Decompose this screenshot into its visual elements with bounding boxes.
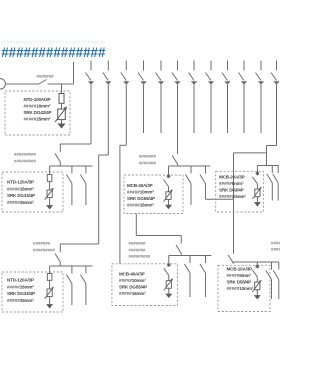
svg-text:MCB-20A/3P: MCB-20A/3P [219, 175, 245, 180]
wire C2 bus [257, 165, 278, 167]
wire B3 incoming switch [176, 236, 181, 256]
breaker QF5 feeder [156, 61, 165, 134]
svg-text:#####16mm²: #####16mm² [24, 103, 51, 108]
wire drop to SPD1 [61, 84, 63, 94]
breaker QF7 feeder [189, 61, 198, 134]
svg-text:#######: ####### [129, 248, 147, 253]
svg-text:SRK D58/4P: SRK D58/4P [227, 280, 252, 285]
wire C3 incoming switch [228, 246, 233, 264]
svg-text:SRK DG55/4P: SRK DG55/4P [127, 196, 155, 201]
wire A3 bus [50, 265, 93, 267]
svg-text:MCB-40A/3P: MCB-40A/3P [127, 183, 153, 188]
svg-text:#######: ####### [129, 241, 147, 246]
breaker QF3 feeder [121, 61, 130, 146]
svg-text:#####16mm²: #####16mm² [7, 284, 34, 289]
wire bus riser [73, 62, 75, 84]
box C2 dashed [216, 171, 264, 212]
svg-text:#####16mm²: #####16mm² [119, 291, 146, 296]
SPD2 fuse varistor ground [45, 166, 54, 210]
wire A2 incoming switch [55, 144, 60, 166]
breaker QF1 feeder [86, 61, 95, 145]
wire jog feeder2 [99, 154, 109, 156]
svg-text:#####25mm²: #####25mm² [7, 298, 34, 303]
wire A2 bus [50, 165, 93, 167]
breaker QF8 feeder [206, 61, 215, 134]
svg-text:#########: ######### [33, 248, 56, 253]
breaker QF11 feeder [256, 61, 265, 134]
breaker A3 out1 [66, 266, 72, 305]
svg-text:SRK DG42/4P: SRK DG42/4P [24, 110, 52, 115]
SPD3 varistor ground [164, 166, 173, 209]
svg-text:#######: ####### [139, 154, 157, 159]
SPD7 varistor ground [252, 262, 261, 300]
svg-text:SRK D63/4P: SRK D63/4P [219, 188, 244, 193]
box A2 dashed [2, 172, 63, 212]
SPD1 fuse FU1 varistor RV1 ground [55, 84, 67, 129]
wire feeder6 to B2 [172, 146, 177, 166]
transformer T1 [0, 79, 6, 89]
svg-text:#####6mm²: #####6mm² [219, 181, 244, 186]
svg-text:#####16mm²: #####16mm² [7, 186, 34, 191]
svg-text:#######: ####### [33, 241, 51, 246]
svg-text:#####: ##### [271, 247, 280, 252]
svg-text:#####6mm²: #####6mm² [227, 273, 252, 278]
svg-text:NTD-120A/3P: NTD-120A/3P [7, 180, 34, 185]
wire main bus right [48, 83, 74, 85]
breaker QF2 feeder [103, 61, 112, 156]
breaker QF6 feeder [172, 61, 181, 147]
svg-text:#######: ####### [37, 74, 55, 79]
svg-text:#####10mm²: #####10mm² [119, 278, 146, 283]
breaker C3 out2 [273, 262, 279, 299]
svg-text:#####25mm²: #####25mm² [24, 116, 51, 121]
box SPD1 dashed [5, 91, 70, 135]
breaker B3 out2 [200, 256, 206, 298]
svg-text:#########: ######### [129, 254, 152, 259]
breaker A2 out2 [80, 166, 86, 205]
breaker B2 out1 [186, 166, 192, 205]
breaker QF12 feeder [271, 61, 280, 146]
svg-text:#####16mm²: #####16mm² [127, 203, 154, 208]
wire B3 bus [169, 255, 212, 257]
wire A3 incoming switch [55, 244, 60, 266]
svg-text:#########: ######### [14, 159, 37, 164]
breaker C3 out1 [266, 262, 272, 299]
box B3 dashed [112, 264, 178, 306]
svg-text:#####: ##### [271, 241, 280, 246]
wire jog feeder3 [120, 144, 126, 146]
wire C3 bus [234, 261, 279, 263]
svg-text:MCB-40A/3P: MCB-40A/3P [119, 272, 145, 277]
svg-text:NTD-120A/3P: NTD-120A/3P [7, 278, 34, 283]
wire elbow feeder12 [267, 145, 277, 147]
svg-text:#####10mm²: #####10mm² [219, 194, 246, 199]
wire elbow to A2 [60, 143, 91, 145]
box A3 dashed [2, 272, 63, 312]
svg-text:NTD-100A/3P: NTD-100A/3P [24, 97, 51, 102]
SPD6 varistor ground [164, 256, 173, 299]
breaker QF4 feeder [138, 61, 147, 134]
breaker B3 out1 [185, 256, 191, 298]
breaker QF9 feeder [222, 61, 231, 134]
wire B2 box to B3 [135, 214, 137, 236]
svg-text:SRK DG33/4P: SRK DG33/4P [7, 193, 35, 198]
switch QS main [39, 80, 47, 85]
breaker QF10 feeder [239, 61, 248, 134]
box C3 dashed [218, 265, 270, 311]
SPD5 fuse varistor ground [45, 266, 54, 309]
svg-text:##############: ############## [1, 45, 106, 60]
svg-text:#########: ######### [14, 152, 37, 157]
box B2 dashed [124, 175, 183, 214]
breaker C2 out2 [273, 166, 279, 201]
svg-text:#####25mm²: #####25mm² [7, 200, 34, 205]
wire B2 bus [169, 165, 211, 167]
svg-text:MCB-10A/3P: MCB-10A/3P [227, 267, 253, 272]
breaker C2 out1 [267, 166, 273, 201]
SPD4 varistor ground [252, 166, 261, 207]
wire B2 to tie [206, 198, 234, 200]
wire main bus left [6, 83, 40, 85]
wire elbow to A3 [60, 243, 98, 245]
svg-text:SRK DG33/4P: SRK DG33/4P [7, 291, 35, 296]
svg-text:#####10mm²: #####10mm² [227, 286, 254, 291]
breaker B2 out2 [200, 166, 206, 199]
svg-text:#######: ####### [139, 160, 157, 165]
svg-text:#####10mm²: #####10mm² [127, 190, 154, 195]
svg-text:SRK DG55/4P: SRK DG55/4P [119, 285, 147, 290]
breaker A2 out1 [66, 166, 72, 205]
breaker A3 out2 [80, 266, 86, 305]
wire tie branch [234, 152, 267, 154]
